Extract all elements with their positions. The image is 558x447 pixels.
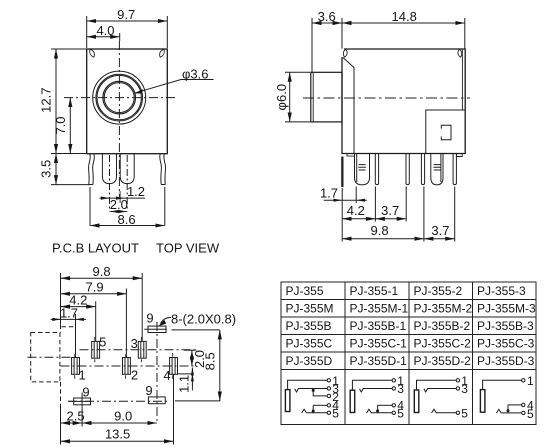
svg-text:P.C.B LAYOUT: P.C.B LAYOUT xyxy=(52,240,139,255)
wire junction vertical xyxy=(312,405,314,413)
svg-text:3.5: 3.5 xyxy=(39,160,54,178)
svg-text:PJ-355C-3: PJ-355C-3 xyxy=(477,336,535,350)
wire sleeve to pin1 xyxy=(417,380,457,390)
pad 9 bottom-right xyxy=(148,397,165,404)
wire sleeve to pin1 xyxy=(352,380,392,390)
terminal pin4 xyxy=(522,403,525,406)
svg-text:2.5: 2.5 xyxy=(67,408,85,423)
svg-text:PJ-355B-3: PJ-355B-3 xyxy=(477,319,534,333)
wire tip spring pin3 xyxy=(295,389,327,393)
dimension 9.0 pcb xyxy=(82,408,157,423)
svg-text:9.8: 9.8 xyxy=(93,264,111,279)
right wing leg xyxy=(160,154,162,185)
terminal pin1 xyxy=(522,379,525,382)
svg-text:PJ-355C: PJ-355C xyxy=(286,336,333,350)
svg-text:13.5: 13.5 xyxy=(105,427,130,442)
svg-text:9: 9 xyxy=(82,385,89,400)
barrel hidden outline (dashed) xyxy=(31,333,60,382)
junction pin3/pin2 xyxy=(312,389,315,392)
dimension 2.0 xyxy=(110,197,128,213)
terminal pin4 xyxy=(327,404,330,407)
svg-text:5: 5 xyxy=(332,406,339,420)
svg-text:PJ-355M-2: PJ-355M-2 xyxy=(414,301,473,315)
svg-text:8-(2.0X0.8): 8-(2.0X0.8) xyxy=(171,311,236,326)
pin numbers cell4 xyxy=(527,374,534,421)
svg-text:7.0: 7.0 xyxy=(53,116,68,134)
svg-text:9: 9 xyxy=(146,310,153,325)
dimension 4.0 xyxy=(87,23,120,41)
vertical centerline 9 pads xyxy=(156,322,158,422)
ring r22 xyxy=(97,75,141,119)
body hidden edge top xyxy=(61,325,76,333)
narrow pin 4 xyxy=(453,154,456,185)
barrel front inner line xyxy=(312,72,314,122)
svg-text:PJ-355C-1: PJ-355C-1 xyxy=(350,336,408,350)
pin numbers cell1 xyxy=(332,374,339,421)
notch top-right xyxy=(160,49,165,57)
narrow pin 2 xyxy=(406,154,409,185)
svg-text:9.7: 9.7 xyxy=(117,7,135,22)
pad 9 bottom-left xyxy=(69,393,91,407)
wide pin B xyxy=(431,154,443,185)
svg-text:3.7: 3.7 xyxy=(431,223,449,238)
svg-text:4.0: 4.0 xyxy=(96,23,114,38)
svg-text:1: 1 xyxy=(78,368,85,383)
terminal pin5 xyxy=(327,411,330,414)
svg-text:5: 5 xyxy=(461,406,468,420)
extension pin 424 xyxy=(423,187,425,242)
wide pin B hatch xyxy=(433,165,441,170)
wide pin A inner line xyxy=(356,154,358,182)
svg-text:PJ-355D: PJ-355D xyxy=(286,354,333,368)
dimension 3.7b side xyxy=(424,223,455,239)
dimension 3.5 xyxy=(39,154,91,185)
top 9 pad xyxy=(144,326,167,332)
pad 4 xyxy=(170,358,178,375)
svg-text:5: 5 xyxy=(527,407,534,421)
wire sleeve to pin1 xyxy=(288,380,328,389)
svg-text:3: 3 xyxy=(397,382,404,396)
pad 1 xyxy=(72,358,80,375)
svg-text:PJ-355D-3: PJ-355D-3 xyxy=(477,354,535,368)
svg-text:8.6: 8.6 xyxy=(118,212,136,227)
label phi3.6 with leader xyxy=(134,66,213,93)
terminal pin1 xyxy=(456,379,459,382)
junction pin4/pin5 xyxy=(312,410,315,413)
terminal pin5 xyxy=(456,411,459,414)
terminal pin3 xyxy=(456,387,459,390)
jack rings: outer circle xyxy=(93,71,146,124)
right edge inner line xyxy=(461,50,463,111)
svg-text:φ6.0: φ6.0 xyxy=(274,84,289,111)
dimension 1.1 pcb xyxy=(176,368,194,393)
bottom-left step xyxy=(342,154,354,157)
pin B centerline xyxy=(126,155,128,212)
wire ring spring pin5 xyxy=(367,409,393,413)
svg-text:3: 3 xyxy=(131,336,138,351)
dimension 2.5 pcb xyxy=(61,408,85,423)
row centerline shield 9 pads xyxy=(68,400,170,402)
front shield pin (heavy) xyxy=(341,157,343,188)
svg-text:12.7: 12.7 xyxy=(39,88,54,113)
svg-text:PJ-355M-3: PJ-355M-3 xyxy=(477,301,536,315)
svg-text:9.0: 9.0 xyxy=(114,408,132,423)
sleeve contact symbol xyxy=(350,390,355,412)
schematic cell 4 (PJ-355-3) xyxy=(480,374,534,421)
dimension 9.8 side xyxy=(342,223,424,239)
dimension 9.8 pcb xyxy=(61,264,143,341)
svg-text:1.1: 1.1 xyxy=(176,375,191,393)
wire tip spring pin3 xyxy=(424,389,456,393)
junction pin4/pin5 xyxy=(376,409,379,412)
extension pin1 xyxy=(341,188,343,242)
terminal pin1 xyxy=(327,379,330,382)
extension 13.5 right (pad4 center) xyxy=(173,375,175,445)
dimension 14.8 xyxy=(342,9,465,49)
dimension 7.0 xyxy=(53,98,71,154)
svg-text:1.2: 1.2 xyxy=(127,184,145,199)
row centerline pins 1,2,4 xyxy=(61,365,194,367)
row centerline pins 5,3 xyxy=(80,349,197,351)
front body outline xyxy=(87,49,168,154)
svg-text:PJ-355C-2: PJ-355C-2 xyxy=(414,336,472,350)
bottom-right step xyxy=(457,154,463,157)
dimension 13.5 pcb xyxy=(61,427,174,442)
wire ring spring pin5 xyxy=(496,409,521,413)
notch top-left xyxy=(343,49,347,57)
dimension 3.7 side xyxy=(375,203,406,219)
wire to pin4 xyxy=(313,404,327,406)
dimension 4.2 pcb xyxy=(61,293,96,342)
dimension 8.5 pcb xyxy=(175,330,220,401)
wire to pin2 xyxy=(313,388,327,396)
svg-text:PJ-355D-2: PJ-355D-2 xyxy=(414,354,472,368)
extension pin 375 xyxy=(374,187,376,222)
terminal pin5 xyxy=(392,411,395,414)
barrel axis centerline xyxy=(28,356,72,358)
svg-text:7.9: 7.9 xyxy=(86,280,104,295)
dimension 8.6 xyxy=(90,187,165,227)
svg-text:1: 1 xyxy=(527,374,534,388)
wire ring spring pin5 xyxy=(432,409,457,413)
schematic cell 3 (PJ-355-2) xyxy=(414,374,468,421)
side body outline xyxy=(342,49,465,154)
pad 2 xyxy=(123,358,131,375)
narrow pin 3 xyxy=(421,154,424,185)
svg-text:4: 4 xyxy=(163,368,170,383)
dimension 2.0 pcb xyxy=(184,350,207,368)
wire to pin4 xyxy=(378,404,392,406)
svg-text:PJ-355B: PJ-355B xyxy=(286,319,332,333)
svg-text:9: 9 xyxy=(145,383,152,398)
dimension 12.7 xyxy=(39,49,87,154)
axis centerline xyxy=(303,97,470,99)
svg-text:4.2: 4.2 xyxy=(347,203,365,218)
svg-text:1.7: 1.7 xyxy=(60,305,78,320)
pad 5 xyxy=(92,341,100,358)
pad 3 xyxy=(138,341,146,358)
front body centerline horizontal xyxy=(64,97,175,99)
dimension phi6.0 xyxy=(274,72,310,122)
svg-text:3.6: 3.6 xyxy=(318,9,336,24)
schematic cell 1 (PJ-355) xyxy=(285,374,339,421)
sleeve contact symbol xyxy=(414,390,419,413)
svg-text:PJ-355D-1: PJ-355D-1 xyxy=(350,354,408,368)
center pin B xyxy=(120,154,134,184)
extension pin 454 xyxy=(454,187,456,242)
wire tip spring pin3 xyxy=(360,389,393,393)
svg-text:φ3.6: φ3.6 xyxy=(182,66,209,81)
svg-text:PJ-355B-1: PJ-355B-1 xyxy=(350,319,407,333)
pin numbers cell2 xyxy=(397,374,404,421)
svg-text:2: 2 xyxy=(131,368,138,383)
hole inner xyxy=(104,83,134,113)
wire junction vertical xyxy=(507,405,509,413)
svg-text:PJ-355M: PJ-355M xyxy=(286,301,334,315)
ring r23 xyxy=(96,74,143,121)
terminal pin5 xyxy=(522,411,525,414)
pad hole centerline dashes xyxy=(75,337,173,379)
extension 9pad-left down xyxy=(81,407,83,427)
dimension 1.2 xyxy=(100,184,146,203)
wide pin B inner line xyxy=(440,154,442,182)
terminal pin4 xyxy=(392,404,395,407)
terminal pin3 xyxy=(327,387,330,390)
svg-text:1.7: 1.7 xyxy=(320,186,338,201)
body hidden edge left-bottom xyxy=(60,382,62,407)
svg-text:PJ-355M-1: PJ-355M-1 xyxy=(350,301,409,315)
svg-text:5: 5 xyxy=(99,335,106,350)
chamfer top-left xyxy=(343,57,354,153)
svg-text:PJ-355-3: PJ-355-3 xyxy=(477,284,526,298)
extension pin 406 xyxy=(405,187,407,222)
hole outer (phi 3.6) xyxy=(103,81,136,114)
svg-text:PJ-355: PJ-355 xyxy=(286,284,324,298)
dimension 7.9 pcb xyxy=(61,280,127,358)
front body centerline vertical xyxy=(118,41,120,197)
svg-text:TOP VIEW: TOP VIEW xyxy=(156,240,220,255)
wide pin A hatch xyxy=(358,165,366,170)
wide pin A xyxy=(355,154,370,185)
svg-text:14.8: 14.8 xyxy=(392,9,417,24)
notch top-right xyxy=(458,49,462,57)
barrel (bushing) xyxy=(311,72,342,122)
wire ring spring pin5 xyxy=(302,409,327,413)
svg-text:9.8: 9.8 xyxy=(371,223,389,238)
extension 13.5 left xyxy=(60,407,62,445)
svg-text:2.0: 2.0 xyxy=(110,197,128,212)
narrow pin 1 xyxy=(375,154,378,185)
dimension 9.7 xyxy=(87,7,168,48)
wire sleeve to pin1 xyxy=(483,380,522,389)
lower-right block xyxy=(426,110,465,154)
svg-text:3.7: 3.7 xyxy=(381,203,399,218)
notch top-left xyxy=(90,49,95,57)
small square window xyxy=(441,125,451,140)
dimension 1.7 pcb xyxy=(51,305,87,357)
wire to pin4 xyxy=(508,404,522,406)
svg-text:PJ-355-2: PJ-355-2 xyxy=(414,284,463,298)
schematic cell 2 (PJ-355-1) xyxy=(350,374,404,421)
part number table grid xyxy=(281,282,536,425)
terminal pin3 xyxy=(392,387,395,390)
sleeve contact symbol xyxy=(285,390,290,412)
center pin A xyxy=(102,154,116,184)
pin numbers cell3 xyxy=(461,374,468,421)
svg-text:5: 5 xyxy=(397,406,404,420)
dimension 4.2 side xyxy=(342,203,375,219)
extension wide pin left xyxy=(355,187,357,204)
terminal pin2 xyxy=(327,394,330,397)
svg-text:3: 3 xyxy=(461,382,468,396)
sleeve contact symbol xyxy=(480,390,485,413)
left wing leg xyxy=(89,154,91,185)
label 8-(2.0X0.8) with leader xyxy=(158,311,236,326)
dimension 3.6 xyxy=(312,9,342,72)
pin A centerline xyxy=(109,155,111,212)
junction pin4/pin5 xyxy=(507,409,510,412)
dimension 1.7 side xyxy=(320,186,367,202)
svg-text:PJ-355B-2: PJ-355B-2 xyxy=(414,319,471,333)
extension top9 to 8.5 xyxy=(172,329,220,331)
wire junction vertical xyxy=(377,405,379,413)
svg-text:PJ-355-1: PJ-355-1 xyxy=(350,284,399,298)
terminal pin1 xyxy=(392,379,395,382)
svg-text:8.5: 8.5 xyxy=(202,352,217,370)
